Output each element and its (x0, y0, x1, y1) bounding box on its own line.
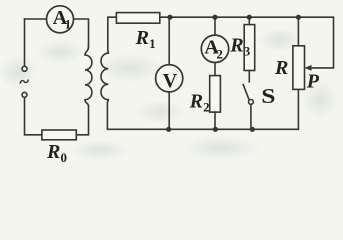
wire R3 to switch (248, 71, 250, 82)
svg-text:0: 0 (61, 150, 68, 164)
wire R2 bottom (214, 112, 216, 129)
svg-text:2: 2 (216, 46, 223, 61)
paper background (0, 0, 343, 164)
junction node top R (296, 15, 301, 20)
svg-text:3: 3 (244, 44, 251, 59)
junction node top V (167, 15, 172, 20)
svg-text:1: 1 (149, 36, 156, 51)
svg-text:S: S (261, 85, 275, 108)
AC source terminal lower (22, 92, 27, 97)
svg-text:V: V (163, 70, 178, 92)
wire V branch top (168, 17, 170, 64)
wire R branch top (297, 17, 299, 46)
wire A2 branch top (214, 17, 216, 35)
svg-text:1: 1 (65, 16, 72, 31)
wire A1 right to primary coil top (74, 19, 89, 47)
junction node bottom R2 (213, 127, 218, 132)
svg-text:R: R (189, 90, 203, 112)
AC source terminal upper (22, 66, 27, 71)
svg-text:R: R (274, 57, 288, 79)
junction node bottom S (250, 127, 255, 132)
switch S blade (243, 85, 249, 101)
transformer primary coil (85, 47, 92, 107)
junction node top R3 (247, 15, 252, 20)
resistor R0 (42, 130, 76, 140)
wire A2 to R2 (214, 63, 216, 76)
junction node top A2 (212, 15, 217, 20)
svg-text:R: R (229, 35, 243, 57)
transformer secondary coil (101, 53, 108, 100)
resistor R3 (244, 25, 255, 71)
svg-text:P: P (306, 71, 320, 93)
resistor R1 (116, 13, 159, 24)
wire top-left horizontal (25, 18, 47, 20)
wire V branch bottom (168, 92, 170, 129)
svg-text:2: 2 (203, 99, 210, 114)
svg-text:R: R (46, 141, 60, 163)
ammeter A2 (201, 35, 228, 62)
wire top rail and right side down to wiper arrow (160, 17, 334, 68)
junction node bottom V (166, 127, 171, 132)
ammeter A1 (47, 6, 74, 33)
switch S pivot contact (249, 100, 254, 105)
resistor R2 (210, 76, 221, 113)
wire R3 branch top (248, 17, 250, 24)
rheostat R (293, 46, 305, 90)
wire switch to bottom rail (250, 104, 252, 129)
wire left vertical lower (25, 97, 42, 134)
wire left vertical upper (24, 19, 26, 66)
wiper arrowhead P (305, 65, 312, 71)
wire R0 right to primary coil bottom (76, 106, 88, 135)
svg-text:R: R (135, 27, 149, 49)
wire secondary coil bottom to bottom rail, rail, and up to R bottom (107, 89, 298, 129)
AC tilde symbol (20, 80, 28, 83)
voltmeter V (156, 65, 183, 92)
wire secondary left / bottom rail (108, 17, 117, 53)
